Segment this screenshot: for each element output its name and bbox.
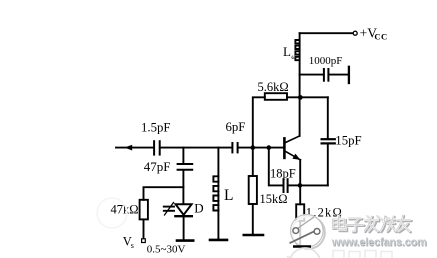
wire: 1.2k bottom lead bbox=[299, 221, 301, 246]
watermark faint bottom row icon bbox=[290, 248, 321, 258]
wire: 15pF vertical top bbox=[327, 97, 329, 138]
resistor R 5.6k body bbox=[265, 93, 287, 100]
ground bar under diode bbox=[177, 239, 193, 242]
node junction top collector node bbox=[298, 95, 303, 100]
node junction at 5.6k/15k on main wire bbox=[251, 145, 256, 150]
output arrow head bbox=[125, 145, 133, 151]
transistor Q emitter arrow bbox=[292, 154, 300, 160]
wire: bottom right horizontal bbox=[300, 184, 328, 186]
svg-text:47pF: 47pF bbox=[144, 159, 171, 174]
svg-text:1.5pF: 1.5pF bbox=[141, 121, 171, 135]
wire: main horizontal output wire left segment bbox=[116, 147, 153, 149]
wire: main horizontal between 1.5pF and 6pF bbox=[161, 147, 232, 149]
wire: 47pF branch down bbox=[182, 148, 184, 164]
wire: diode bottom lead bbox=[183, 217, 185, 239]
resistor R 1.2k body bbox=[296, 204, 304, 221]
capacitor C 6pF plates bbox=[231, 143, 233, 152]
watermark faint bottom row char tops bbox=[333, 251, 392, 258]
svg-text:L: L bbox=[224, 187, 233, 204]
wire: main horizontal from 6pF to base bbox=[239, 147, 284, 149]
svg-text:1000pF: 1000pF bbox=[309, 55, 343, 67]
wire: top node horizontal to 15pF branch bbox=[287, 96, 328, 98]
svg-text:CC: CC bbox=[374, 31, 387, 41]
node junction at 18pF branch on main wire bbox=[267, 145, 272, 150]
ground bar right of 1000pF bbox=[348, 67, 350, 83]
resistor R 47k body bbox=[140, 200, 148, 220]
watermark faint circle upper-left tile bbox=[97, 198, 127, 228]
wire: 47k bottom lead bbox=[143, 219, 145, 238]
wire: 47pF bottom lead down to node bbox=[182, 171, 184, 205]
inductor Lw humps bbox=[295, 40, 299, 60]
inductor L humps bbox=[213, 176, 218, 210]
svg-text:0.5~30V: 0.5~30V bbox=[147, 243, 186, 255]
node junction emitter node bbox=[298, 183, 303, 188]
wire: 1000pF branch bbox=[300, 74, 323, 76]
diode D triangle bbox=[176, 204, 192, 215]
svg-text:www.elecfans.com: www.elecfans.com bbox=[331, 237, 427, 249]
wire: 15k bottom lead bbox=[252, 204, 254, 234]
wire: 18pF branch bbox=[269, 148, 283, 186]
wire: horizontal to 47k resistor bbox=[144, 187, 184, 200]
svg-text:D: D bbox=[194, 201, 203, 216]
capacitor C 15pF plates bbox=[322, 138, 335, 140]
capacitor C 1.5pF plates bbox=[153, 141, 155, 154]
wire: collector vertical bbox=[299, 98, 301, 136]
svg-text:6pF: 6pF bbox=[226, 120, 246, 134]
wire: emitter vertical bbox=[299, 160, 301, 204]
ground bar under 15k bbox=[244, 234, 263, 237]
ground bar under L bbox=[210, 239, 227, 242]
svg-text:15pF: 15pF bbox=[335, 134, 361, 148]
capacitor C 47pF plates bbox=[178, 163, 193, 165]
svg-text:18pF: 18pF bbox=[270, 167, 296, 181]
wire: 15k branch down bbox=[252, 148, 254, 176]
svg-text:ω: ω bbox=[291, 52, 296, 61]
wire: top horizontal to Vcc bbox=[300, 32, 353, 34]
capacitor C 18pF plates bbox=[283, 179, 285, 192]
svg-text:L: L bbox=[283, 44, 291, 59]
capacitor C 1000pF plates bbox=[323, 69, 325, 81]
transistor Q collector diagonal bbox=[286, 136, 300, 142]
wire: 15pF vertical bottom bbox=[327, 144, 329, 185]
wire: L branch vertical bbox=[217, 148, 219, 239]
watermark phone icon bbox=[290, 215, 325, 249]
wire: top vertical with Lw choke bbox=[299, 33, 301, 97]
resistor R 15k body bbox=[249, 176, 257, 204]
svg-text:s: s bbox=[131, 241, 134, 250]
transistor Q emitter diagonal bbox=[286, 152, 301, 160]
varactor mark bbox=[164, 206, 174, 208]
transistor Q base bar bbox=[283, 138, 286, 158]
wire: 1000pF right lead bbox=[329, 74, 348, 76]
terminal Vs square bbox=[142, 239, 146, 243]
wire: 18pF to emitter node bbox=[289, 184, 300, 186]
svg-text:15kΩ: 15kΩ bbox=[260, 192, 288, 206]
svg-text:5.6kΩ: 5.6kΩ bbox=[258, 80, 289, 94]
ground bar under 1.2k bbox=[293, 245, 311, 248]
terminal Vcc circle bbox=[353, 31, 357, 35]
watermark CJK text dian zi fa shao you bbox=[334, 216, 412, 232]
diode D cathode bar bbox=[175, 215, 191, 217]
wire: 5.6k branch up bbox=[253, 97, 265, 147]
